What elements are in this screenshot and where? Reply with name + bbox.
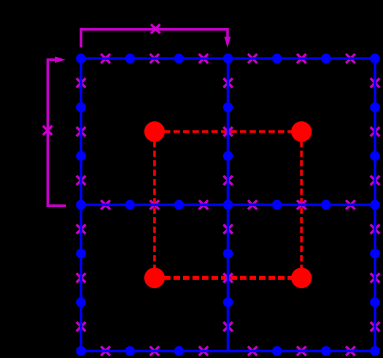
red cell-center node top-right	[291, 121, 312, 142]
red dashed link: right edge	[300, 132, 303, 278]
X nodes on vertical grid line 3	[371, 79, 378, 330]
X nodes on horizontal grid line 2	[102, 201, 354, 208]
top bracket X label	[152, 25, 159, 32]
horizontal grid line 2	[81, 204, 375, 207]
X nodes on vertical grid line 2	[224, 79, 231, 330]
top spacing bracket line	[81, 29, 228, 47]
left bracket arrowhead (right, at y=59.7)	[55, 57, 66, 63]
X nodes on horizontal grid line 1	[102, 55, 354, 62]
red cell-center node top-left	[144, 121, 165, 142]
blue nodes on vertical grid line 1 (interior)	[76, 102, 86, 307]
red dashed link: left edge	[153, 132, 156, 278]
blue nodes on vertical grid line 2 (interior)	[223, 102, 233, 307]
red cell-center node bottom-right	[291, 268, 312, 289]
red dashed link: bottom edge (thick)	[155, 276, 302, 280]
X nodes on horizontal grid line 3	[102, 347, 354, 354]
blue nodes on horizontal grid line 1	[76, 54, 380, 64]
horizontal grid line 3	[81, 350, 375, 353]
red cell-center node bottom-left	[144, 268, 165, 289]
blue nodes on horizontal grid line 3	[76, 346, 380, 356]
horizontal grid line 1	[81, 57, 375, 60]
blue nodes on horizontal grid line 2	[76, 200, 380, 210]
blue nodes on vertical grid line 3 (interior)	[370, 102, 380, 307]
left bracket X label	[44, 127, 51, 134]
vertical grid line 3	[374, 59, 377, 352]
top bracket arrowhead (down, at x=227.5)	[224, 37, 230, 48]
vertical grid line 2	[227, 59, 230, 353]
X nodes on vertical grid line 1	[77, 79, 84, 330]
left spacing bracket line	[48, 60, 66, 206]
red dashed link: top edge of coarse-cell-center square	[155, 130, 302, 133]
vertical grid line 1	[80, 59, 83, 352]
